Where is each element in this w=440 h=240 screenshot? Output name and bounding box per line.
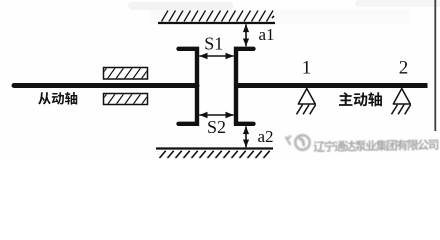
lower bearing block [104, 94, 148, 105]
svg-text:2: 2 [399, 58, 409, 79]
a1 dimension arrow [245, 24, 247, 46]
driven shaft label [38, 92, 51, 104]
right coupling flange [236, 49, 254, 124]
support 1 [298, 89, 315, 105]
watermark company text [313, 139, 438, 152]
bottom wall line [156, 147, 273, 149]
driving shaft label [339, 92, 353, 106]
a2 dimension arrow [245, 126, 247, 147]
svg-text:a2: a2 [258, 127, 274, 146]
svg-text:a1: a1 [259, 25, 275, 44]
bottom wall hatching [160, 151, 270, 158]
S2 dimension arrow [199, 114, 233, 116]
top wall hatching [162, 11, 274, 22]
svg-text:S1: S1 [204, 33, 223, 53]
right border line [434, 0, 436, 131]
upper bearing block [104, 68, 148, 80]
watermark logo [286, 135, 310, 149]
S1 dimension arrow [199, 55, 233, 57]
faint top smudges (decorative) [128, 2, 233, 10]
driving shaft [236, 83, 428, 88]
support 2 [393, 89, 410, 105]
driven shaft [14, 83, 197, 88]
left coupling flange [179, 49, 198, 124]
top wall line [158, 22, 275, 24]
svg-text:S2: S2 [207, 117, 226, 137]
svg-text:1: 1 [302, 58, 312, 79]
